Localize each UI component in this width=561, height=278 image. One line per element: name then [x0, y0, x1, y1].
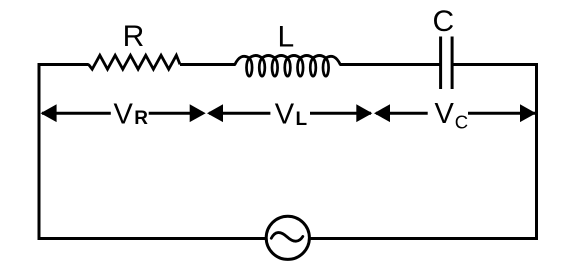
- svg-text:V: V: [275, 99, 295, 131]
- svg-text:V: V: [114, 99, 134, 131]
- wire: left side loop (top-left, left vertical, bottom-left to source): [39, 65, 266, 239]
- label VL: [275, 99, 308, 131]
- svg-text:L: L: [296, 109, 308, 130]
- inductor L: [235, 56, 340, 77]
- label VC: [435, 98, 469, 132]
- arrow VR (double-headed span across resistor): [41, 104, 206, 122]
- svg-text:V: V: [435, 98, 455, 130]
- svg-text:L: L: [277, 21, 294, 54]
- label VR: [114, 99, 149, 131]
- capacitor C: [441, 37, 453, 90]
- arrow VC (double-headed span across capacitor): [374, 104, 536, 122]
- svg-text:R: R: [134, 108, 148, 129]
- resistor R: [89, 55, 181, 69]
- wire: right side loop (source to bottom-right, right vertical, top-right to capacitor): [310, 65, 536, 239]
- arrow VL (double-headed span across inductor): [207, 104, 372, 122]
- svg-text:C: C: [455, 111, 468, 132]
- wire: between resistor and inductor: [180, 63, 235, 66]
- svg-text:C: C: [432, 5, 454, 38]
- ac source: [266, 216, 309, 259]
- svg-text:R: R: [123, 20, 145, 53]
- wire: between inductor and capacitor: [340, 63, 441, 66]
